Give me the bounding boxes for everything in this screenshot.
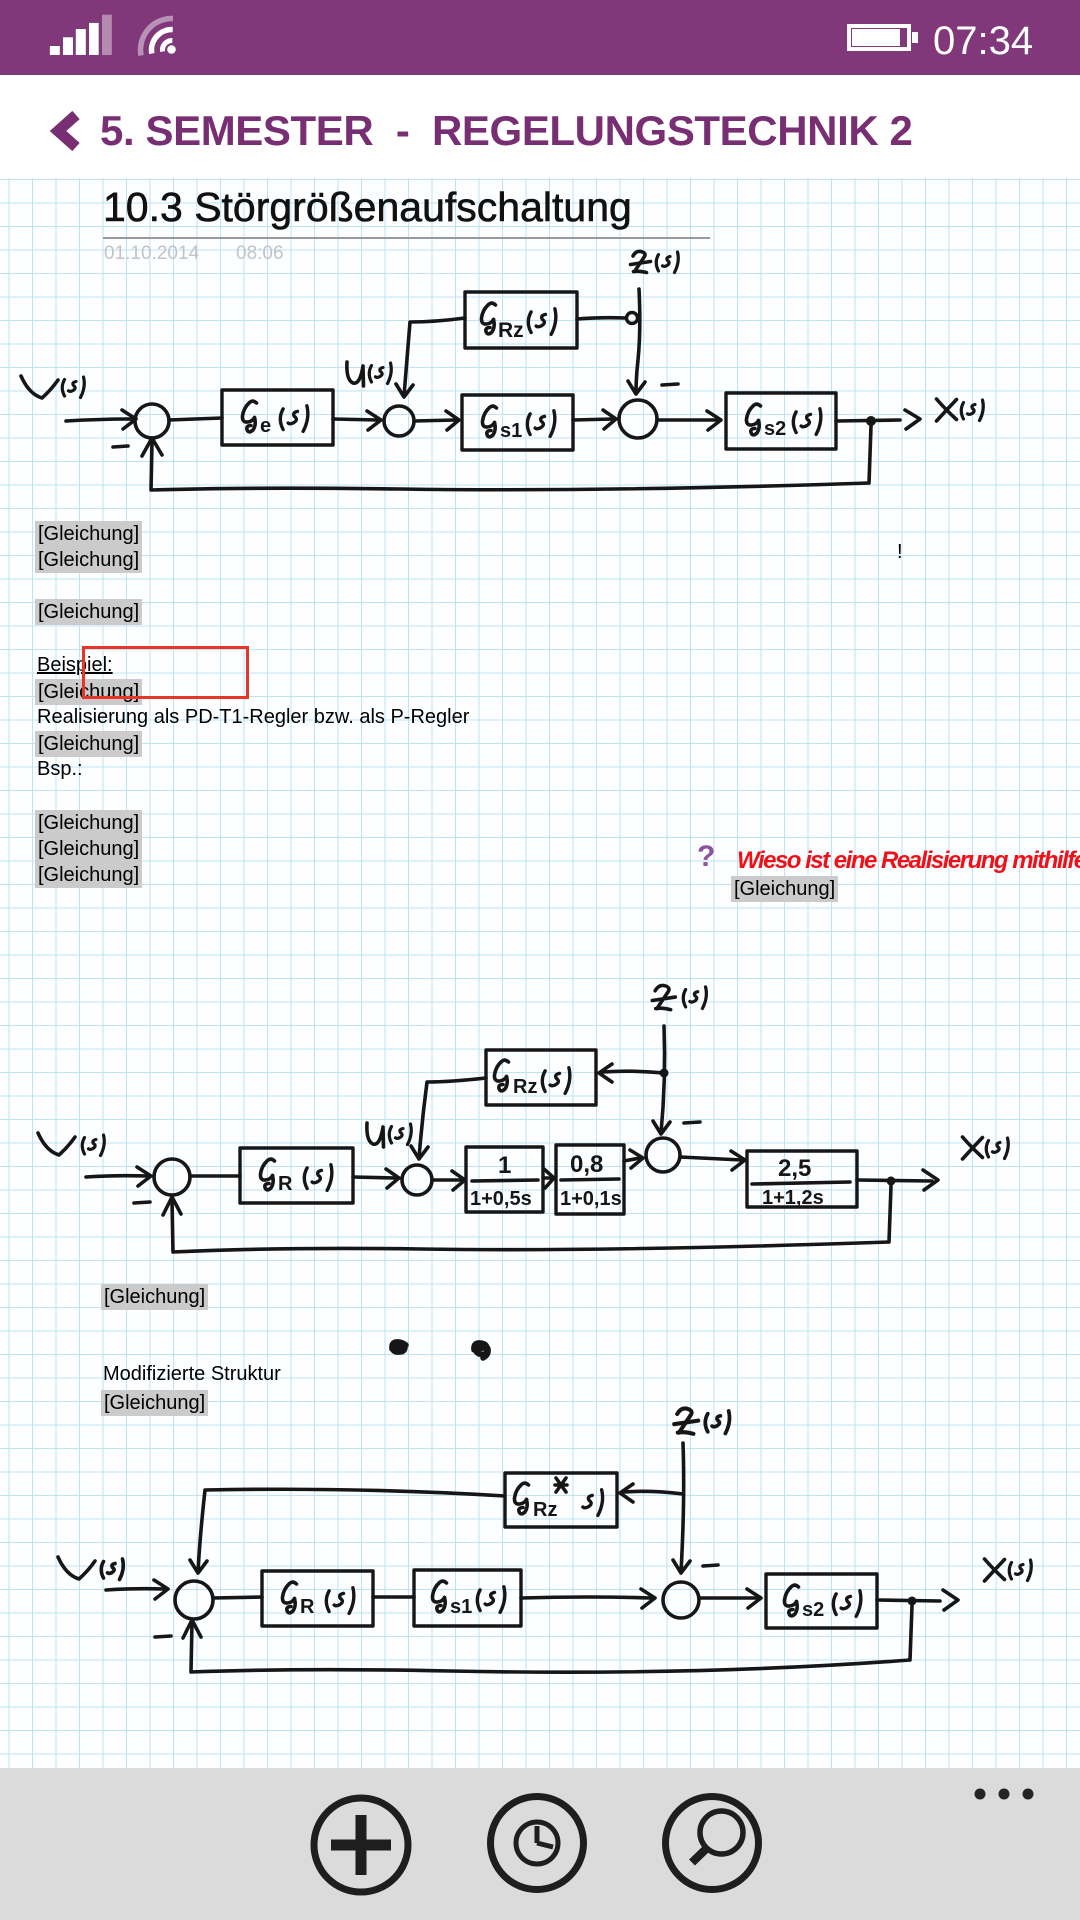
arrowhead into F2 d2 <box>544 1169 554 1188</box>
arrowhead into F1 d2 <box>452 1171 465 1190</box>
output arrowhead d3 <box>943 1590 958 1610</box>
junction node dot d3 <box>908 1597 917 1606</box>
arrowhead left into GRZ d2 <box>599 1064 612 1082</box>
junction node dot d1 <box>866 416 876 426</box>
block GS1(s) d3 <box>414 1570 521 1626</box>
summing junction S3 d2 <box>646 1138 680 1172</box>
wire S1 to GR d3 <box>213 1597 262 1598</box>
arrowhead up into S1 d2 <box>163 1197 181 1215</box>
add button <box>314 1798 408 1892</box>
arrowhead left into GRZ* d3 <box>620 1484 633 1502</box>
node label U(s) d2 <box>367 1123 411 1147</box>
arrowhead into S2 d2 <box>386 1169 399 1188</box>
summing junction S2 d1 <box>384 406 414 436</box>
arrowhead into F3 d2 <box>731 1151 745 1170</box>
wire GS1 to sum S3 <box>573 419 613 420</box>
wire GS2 to output <box>836 420 900 421</box>
node label Z(s) d2 <box>652 985 706 1009</box>
node label X(s) d1 <box>937 399 984 421</box>
block GS2(s) d3 <box>766 1574 877 1628</box>
arrowhead input S1 d3 <box>154 1580 168 1599</box>
block GRZ*(s) d3 <box>505 1473 617 1527</box>
arrowhead into GS1 <box>446 411 459 430</box>
summing junction S1 d3 <box>175 1581 213 1619</box>
arrowhead into S3 <box>603 410 616 429</box>
summing junction S2 d3 <box>663 1582 699 1618</box>
arrowhead into S2 d3 <box>641 1589 655 1608</box>
arrowhead into S2 <box>367 411 381 430</box>
recent button <box>491 1797 584 1890</box>
ellipsis dots <box>975 1789 1034 1800</box>
wire GRZ* left long to down into S1 d3 <box>198 1489 505 1572</box>
arrowhead down into S3 <box>628 381 645 394</box>
arrowhead down into S2 <box>396 384 413 397</box>
minus sign at S2 d3 <box>703 1565 718 1566</box>
junction dot on Z line d2 <box>660 1069 669 1078</box>
ink scribble 2 <box>474 1343 488 1358</box>
arrowhead down into S3 d2 <box>653 1121 670 1134</box>
feedback wire d1 <box>151 426 871 490</box>
arrowhead up into S1 <box>142 438 162 456</box>
feedback wire d3 <box>191 1606 912 1672</box>
ink scribble 1 <box>392 1342 406 1352</box>
arrowhead up into S1 d3 <box>183 1620 201 1638</box>
header <box>0 75 1080 178</box>
block GR(s) d3 <box>262 1571 373 1626</box>
node label X(s) d2 <box>963 1137 1009 1159</box>
minus sign at S1 d3 <box>155 1636 171 1637</box>
wire Z line to GRZ* box d3 <box>624 1491 683 1494</box>
block GS2(s) d1 <box>726 393 836 449</box>
arrowhead down into S1 d3 <box>190 1560 207 1573</box>
page title <box>103 184 632 231</box>
wire GR to GS1 d3 <box>373 1595 414 1599</box>
arrowhead into GS2 d3 <box>747 1589 761 1608</box>
node label W(s) d3 <box>58 1557 123 1580</box>
wifi icon <box>141 18 176 55</box>
wire input into S1 d2 <box>86 1176 148 1177</box>
wire S1 to block GR <box>169 418 222 420</box>
wire Z line to GRZ box d2 <box>603 1071 664 1073</box>
wire GS1 to S2 d3 <box>521 1597 651 1598</box>
red annotation rectangle <box>82 646 249 699</box>
wire S2 to GS2 d3 <box>699 1596 758 1600</box>
minus sign at S1 <box>113 446 128 447</box>
summing junction S2 d2 <box>402 1165 432 1195</box>
wire Z(s) vertical into sum S3 <box>636 289 640 393</box>
block 2,5/(1+1,2s) d2 <box>747 1151 857 1209</box>
battery icon <box>849 26 918 49</box>
block GRZ(s) d2 <box>486 1050 596 1105</box>
wire S1 to GR d2 <box>190 1174 240 1178</box>
bottom app bar <box>0 1768 1080 1920</box>
wire Z vertical into sum S3 d2 <box>661 1026 665 1133</box>
wire GRZ left, down to sum S2 <box>404 318 465 396</box>
wire GS2 to output d3 <box>877 1600 940 1601</box>
node label U(s) d1 <box>347 362 391 386</box>
text block <box>35 521 142 547</box>
summing junction S1 d2 <box>154 1159 190 1195</box>
status bar <box>0 0 1080 75</box>
wire F3 to output d2 <box>857 1180 932 1181</box>
block GRZ(s) d1 <box>465 292 577 348</box>
wire input into S1 d3 <box>106 1589 165 1590</box>
arrowhead down into S2 d2 <box>411 1146 428 1159</box>
output arrowhead d2 <box>923 1170 938 1190</box>
arrowhead input S1 d2 <box>137 1167 151 1186</box>
search button <box>666 1797 759 1890</box>
back chevron <box>58 115 76 147</box>
block GR(s) d1 <box>222 390 333 445</box>
minus sign at S1 d2 <box>134 1202 150 1203</box>
wire F2 to S3 d2 <box>624 1158 640 1161</box>
output arrowhead <box>905 410 920 429</box>
block GR(s) d2 <box>240 1148 353 1203</box>
wire S3 to block F3 d2 <box>680 1157 742 1160</box>
feedback wire d2 <box>172 1186 891 1252</box>
node label W(s) d1 <box>21 376 84 398</box>
connector open circle on Z line <box>627 313 638 324</box>
minus sign at S3 d2 <box>684 1122 700 1123</box>
wire GRZ left down into sum S2 d2 <box>419 1078 486 1158</box>
arrowhead into GS2 <box>707 411 721 430</box>
junction node dot d2 <box>887 1177 896 1186</box>
wire S3 to block GS2 <box>657 418 718 422</box>
arrowhead into S3 d2 <box>630 1150 643 1168</box>
wire input into sum S1 <box>66 419 133 421</box>
arrowhead down into S2 d3 <box>673 1560 690 1573</box>
block 0,8/(1+0,1s) d2 <box>556 1145 624 1214</box>
node label X(s) d3 <box>985 1559 1032 1581</box>
summing junction S3 d1 <box>619 400 657 438</box>
block 1/(1+0,5s) d2 <box>466 1147 543 1212</box>
summing junction S1 d1 <box>135 404 169 438</box>
signal strength bars <box>50 15 112 55</box>
minus sign at S3 <box>662 384 678 385</box>
wire GR to S2 d2 <box>353 1177 396 1178</box>
wire GR to sum S2 <box>333 419 378 420</box>
wire Z vertical into sum S2 d3 <box>681 1443 684 1572</box>
wire S2 to block GS1 <box>414 420 456 421</box>
node label Z(s) d3 <box>674 1408 729 1433</box>
arrowhead input S1 <box>122 410 136 429</box>
node label W(s) d2 <box>38 1133 104 1156</box>
wire GRZ right to Z line <box>577 318 626 319</box>
block GS1(s) d1 <box>462 395 573 450</box>
wire S2 to block F1 d2 <box>432 1178 462 1182</box>
wire F1 to F2 d2 <box>543 1176 550 1180</box>
node label Z(s) d1 <box>631 251 679 272</box>
